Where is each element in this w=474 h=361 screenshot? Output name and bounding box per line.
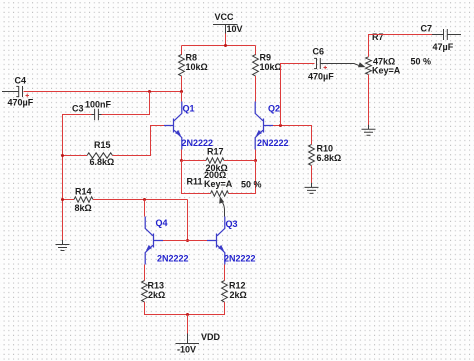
svg-text:100nF: 100nF — [85, 100, 112, 110]
svg-text:R10: R10 — [317, 144, 334, 154]
transistor Q1 — [164, 102, 213, 150]
node C4/R8/Q1 junction — [180, 90, 183, 93]
power VDD — [176, 332, 221, 355]
svg-text:2N2222: 2N2222 — [257, 138, 289, 148]
wire Q1 collector — [181, 92, 183, 102]
node R15 left junction — [61, 154, 64, 157]
wire VDD stem — [187, 315, 189, 335]
svg-text:R14: R14 — [75, 187, 92, 197]
svg-text:VDD: VDD — [201, 332, 221, 342]
node Q2 base/C6 junction — [279, 124, 282, 127]
wire Q4 emitter to R13 — [144, 265, 146, 281]
node mirror base junction — [186, 239, 189, 242]
power VCC — [213, 12, 243, 34]
wire Q4 collector — [144, 200, 146, 217]
resistor R10 — [309, 144, 342, 166]
capacitor C4 — [2, 76, 34, 108]
svg-text:C4: C4 — [15, 76, 27, 86]
capacitor C3 — [72, 100, 112, 121]
wire R9 bottom lead — [255, 76, 257, 102]
resistor R17 — [206, 147, 228, 174]
svg-text:10kΩ: 10kΩ — [260, 62, 282, 72]
svg-text:50 %: 50 % — [411, 57, 432, 67]
wire Q3 emitter to R12 — [224, 265, 226, 281]
wire Q1 emitter — [181, 150, 183, 161]
svg-text:2N2222: 2N2222 — [224, 254, 256, 264]
svg-text:R9: R9 — [260, 53, 272, 63]
svg-text:2N2222: 2N2222 — [157, 254, 189, 264]
svg-text:C7: C7 — [421, 24, 433, 34]
wire C3 left lead — [63, 115, 92, 241]
svg-text:10kΩ: 10kΩ — [186, 62, 208, 72]
svg-text:R15: R15 — [94, 140, 111, 150]
wire R7 top to C7 — [369, 35, 433, 57]
wire mirror node down — [187, 200, 189, 241]
transistor Q3 — [207, 217, 256, 265]
svg-text:R17: R17 — [207, 147, 224, 157]
svg-text:R12: R12 — [229, 281, 246, 291]
svg-text:VCC: VCC — [215, 12, 235, 22]
wire R8 top lead — [181, 46, 183, 56]
svg-text:Key=A: Key=A — [204, 179, 233, 189]
wire R15 left lead — [63, 155, 88, 157]
ground under R7 — [362, 125, 376, 136]
svg-text:470µF: 470µF — [8, 98, 34, 108]
wire R17 right lead — [224, 160, 256, 162]
wire VCC stem — [225, 34, 227, 46]
wire R10 bottom — [311, 166, 313, 184]
svg-text:470µF: 470µF — [308, 72, 334, 82]
wire bottom rail — [145, 302, 225, 315]
svg-text:10V: 10V — [227, 24, 243, 34]
resistor R8 — [179, 53, 208, 76]
node Q2 emitter junction — [254, 159, 257, 162]
svg-text:Q1: Q1 — [183, 104, 195, 114]
wire R14 right to mirror node — [93, 199, 188, 201]
svg-text:8kΩ: 8kΩ — [75, 203, 92, 213]
svg-text:50 %: 50 % — [241, 180, 262, 190]
wire R11 loop left — [182, 161, 211, 194]
resistor R13 — [142, 281, 166, 303]
ground under R10 — [305, 183, 319, 194]
svg-text:C6: C6 — [313, 47, 325, 57]
svg-text:6.8kΩ: 6.8kΩ — [317, 153, 342, 163]
potentiometer R11 — [187, 170, 262, 216]
resistor R15 — [87, 140, 114, 167]
svg-text:6.8kΩ: 6.8kΩ — [90, 157, 115, 167]
svg-text:Q4: Q4 — [156, 218, 168, 228]
wire R17 left lead — [182, 160, 207, 162]
resistor R12 — [222, 281, 247, 303]
svg-text:R8: R8 — [186, 53, 198, 63]
svg-text:R7: R7 — [372, 32, 384, 42]
transistor Q2 — [255, 102, 288, 150]
wire R11 loop right — [229, 161, 256, 194]
wire VCC rail — [182, 45, 256, 47]
ground left — [56, 240, 70, 251]
svg-text:47µF: 47µF — [433, 42, 454, 52]
resistor R14 — [74, 187, 93, 214]
wire R9 top lead — [255, 46, 257, 56]
wire C4 to node — [24, 91, 182, 93]
wire C6 branch — [281, 64, 315, 126]
wire Q2 emitter — [255, 150, 257, 161]
node R14 left junction — [61, 198, 64, 201]
node VDD rail junction — [186, 313, 189, 316]
transistor Q4 — [145, 217, 188, 265]
resistor R9 — [253, 53, 282, 76]
svg-text:R13: R13 — [148, 281, 165, 291]
svg-text:2kΩ: 2kΩ — [148, 290, 165, 300]
svg-text:R11: R11 — [187, 177, 203, 187]
wire base rail — [163, 240, 207, 242]
svg-text:Q3: Q3 — [226, 219, 238, 229]
wire Q2 base to R10 — [273, 126, 312, 145]
wire R15 right lead up to Q1 base — [113, 126, 165, 156]
node C4/C3 junction — [148, 90, 151, 93]
wire R14 left lead — [63, 199, 75, 201]
svg-text:Q2: Q2 — [268, 104, 280, 114]
wire R8 bottom lead — [181, 76, 183, 92]
wire R7 bottom — [368, 75, 370, 126]
svg-text:2kΩ: 2kΩ — [230, 290, 247, 300]
capacitor C6 — [308, 47, 360, 82]
svg-text:C3: C3 — [72, 104, 84, 114]
svg-text:-10V: -10V — [177, 345, 196, 355]
node Q1 emitter junction — [180, 159, 183, 162]
potentiometer R7 — [358, 32, 431, 75]
node VCC rail junction — [224, 44, 227, 47]
svg-text:Key=A: Key=A — [372, 65, 401, 75]
node R14/Q4 collector junction — [143, 198, 146, 201]
wire C4 node down to C3 — [100, 92, 150, 115]
capacitor C7 — [421, 24, 462, 53]
